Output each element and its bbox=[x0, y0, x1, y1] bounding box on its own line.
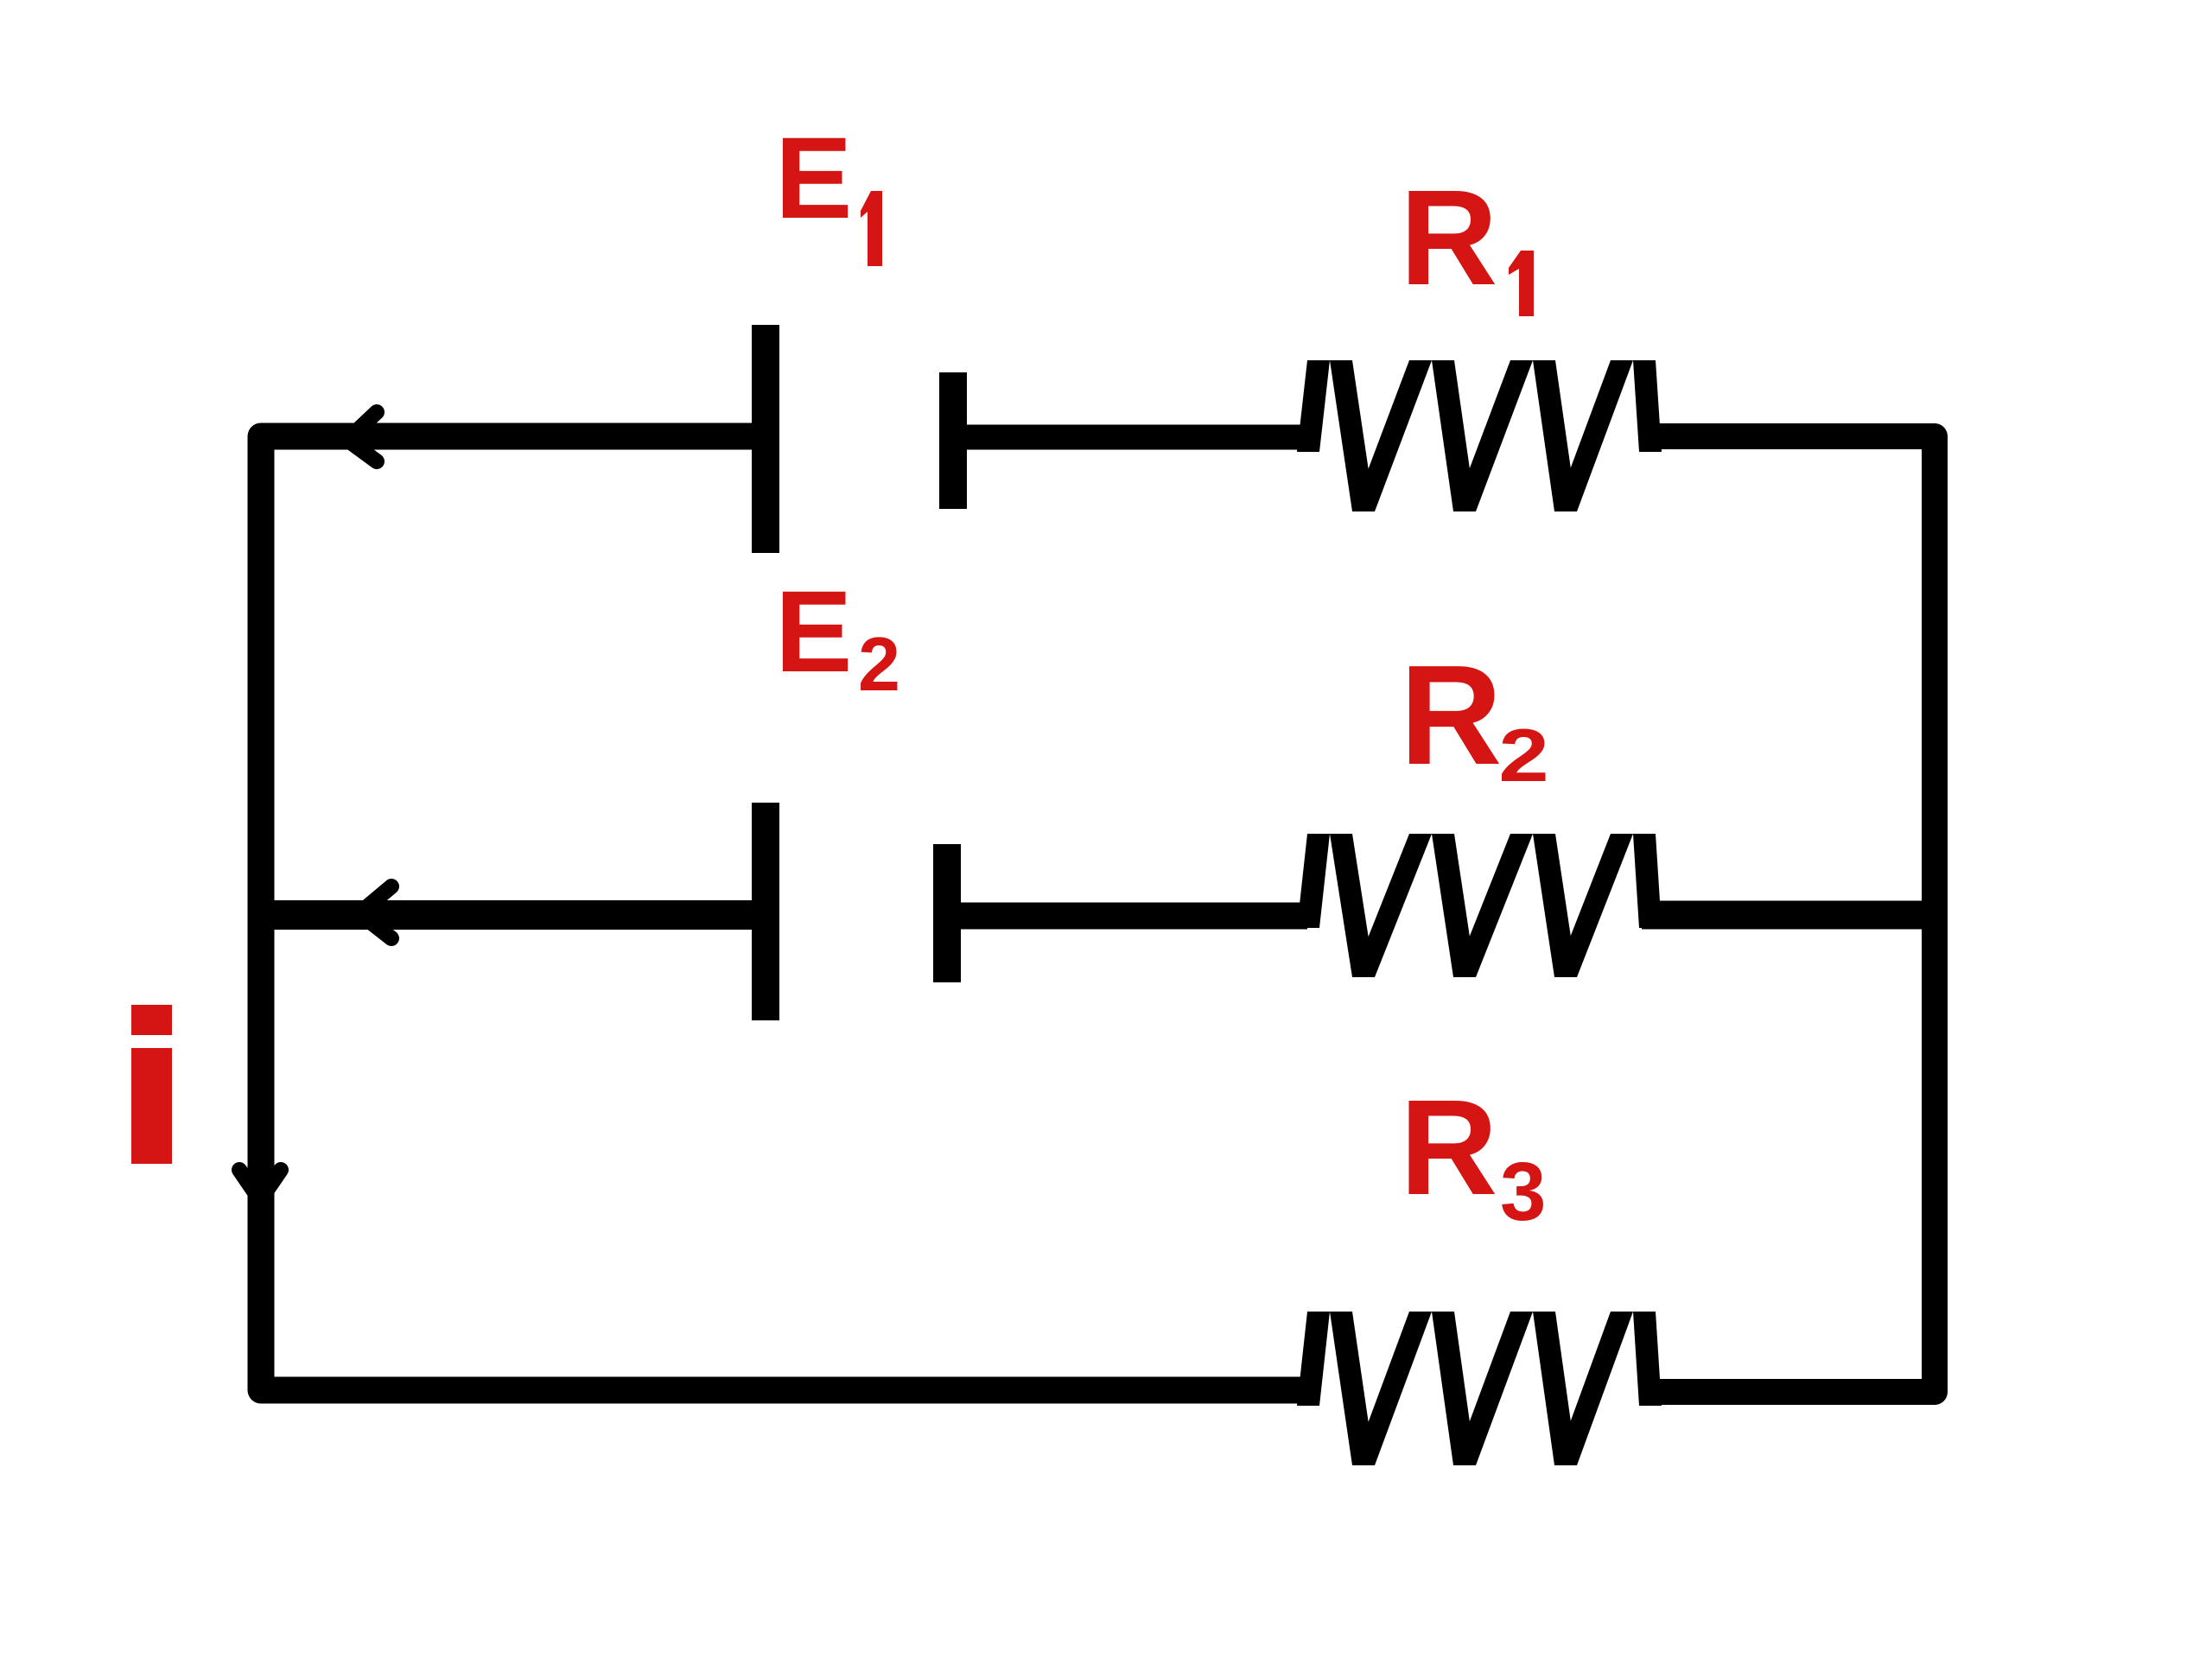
svg-text:3: 3 bbox=[1500, 1146, 1546, 1238]
wire middle branch left (node at left wire to E2) bbox=[261, 900, 766, 930]
battery E1 long plate bbox=[752, 325, 779, 553]
wire top lead-out, right vertical, bottom lead-in bbox=[1642, 436, 1935, 1392]
wire E2 short plate to R2 bbox=[947, 903, 1307, 930]
wire middle branch right (R2 to right wire) bbox=[1642, 901, 1935, 930]
battery E2 long plate bbox=[752, 803, 779, 1020]
battery E2 short plate bbox=[933, 844, 961, 982]
battery E1 short plate bbox=[939, 372, 967, 509]
svg-text:2: 2 bbox=[1498, 715, 1548, 797]
wire E1 short plate to R1 bbox=[953, 425, 1307, 450]
svg-text:2: 2 bbox=[858, 621, 900, 707]
arrow on top branch (current direction, pointing left) bbox=[347, 412, 377, 461]
resistor R2 zigzag bbox=[1297, 834, 1330, 928]
label i (current) bbox=[131, 1005, 172, 1035]
wire left-top-bottom loop bbox=[261, 436, 1307, 1390]
arrow on left wire (current i, pointing down) bbox=[239, 1170, 281, 1200]
svg-text:R: R bbox=[1400, 636, 1502, 794]
svg-text:E: E bbox=[775, 568, 852, 696]
arrow on middle branch (pointing left) bbox=[359, 886, 391, 938]
svg-text:R: R bbox=[1400, 162, 1497, 314]
resistor R1 zigzag bbox=[1297, 360, 1330, 452]
svg-text:E: E bbox=[775, 114, 852, 243]
svg-text:R: R bbox=[1400, 1072, 1497, 1223]
resistor R3 zigzag bbox=[1297, 1312, 1330, 1406]
